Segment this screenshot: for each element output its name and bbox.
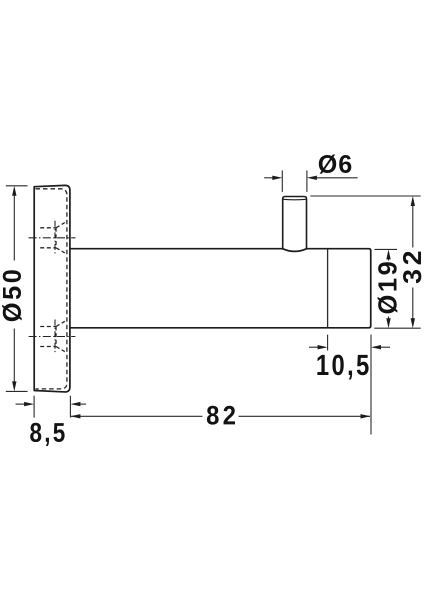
dimension 8,5: extension lines: [34, 396, 70, 418]
dimension Ø50: label (rotated): [2, 270, 22, 321]
screw hole 2 (hidden, dashed): [40, 321, 65, 351]
arm end-cap joint line: [327, 249, 329, 328]
wall plate back face hidden edge (dashed): [36, 189, 67, 389]
dimension Ø19: label (rotated): [378, 262, 398, 313]
screw hole 1 (hidden, dashed): [40, 223, 65, 253]
dimension Ø6: label: [319, 155, 352, 174]
dimension 82: arrows: [70, 414, 80, 418]
dimension 10,5: left arrow with tail: [309, 346, 319, 348]
dimension 32: label (rotated): [403, 252, 421, 284]
dimension 8,5: right arrow with tail: [70, 402, 80, 406]
screw hole 2 centerlines (dash-dot): [29, 320, 76, 354]
dimension Ø50: dimension line with arrows: [13, 196, 15, 382]
dimension Ø6: right arrow and line: [307, 176, 317, 180]
dimension 10,5: extension lines: [328, 335, 371, 435]
dimension 8,5: left arrow with tail: [16, 403, 26, 405]
dimension Ø19: dimension line with arrows: [388, 259, 390, 319]
pin (Ø6 stud) outline: [283, 197, 307, 250]
dimension 82: label: [207, 406, 235, 425]
dimension Ø6: left arrow with tail: [264, 177, 273, 179]
dimension 10,5: label: [317, 355, 368, 380]
arm cylinder outline: [70, 249, 371, 328]
dimension 82: dimension line segments: [71, 415, 370, 417]
dimension 10,5: right arrow with tail: [371, 345, 381, 349]
dimension Ø19: top extension line (arm top extended): [375, 248, 398, 250]
dimension 32: dimension line with arrows: [412, 206, 414, 319]
wall plate outline: [34, 185, 70, 392]
pin top inner edge: [283, 198, 306, 201]
screw hole 1 centerlines (dash-dot): [29, 221, 76, 255]
dimension 8,5: label: [30, 423, 64, 446]
dimension 32: top extension line: [310, 195, 420, 197]
dimension 32 / Ø19: bottom extension line: [374, 327, 420, 329]
dimension Ø6: extension lines: [282, 170, 307, 192]
dimension Ø50: extension lines: [6, 186, 28, 392]
